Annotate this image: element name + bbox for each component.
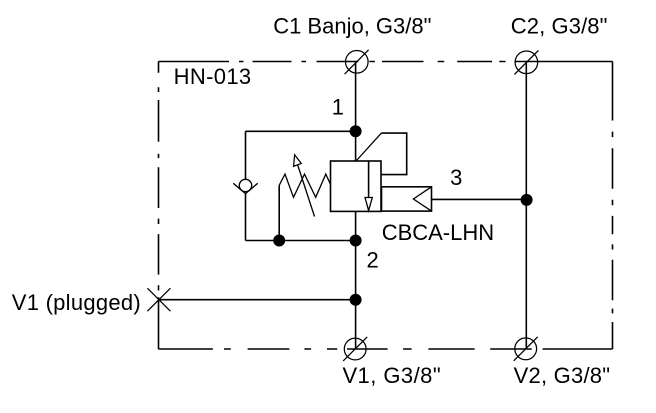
svg-text:C1 Banjo, G3/8": C1 Banjo, G3/8" xyxy=(273,14,431,39)
port V2 slash xyxy=(514,337,538,361)
svg-text:V1 (plugged): V1 (plugged) xyxy=(12,290,141,315)
wire: valve bottom to V1 port xyxy=(355,211,357,349)
manifold boundary bottom (dash-dot) xyxy=(159,348,613,350)
adjustment arrow shaft xyxy=(298,165,315,217)
port C1 slash xyxy=(345,50,369,74)
valve pilot sense line loop xyxy=(381,133,407,175)
wire: spring riser xyxy=(278,185,280,240)
junction dot V1 branch xyxy=(350,294,362,306)
manifold boundary top (dash-dot) xyxy=(159,61,613,63)
valve pilot sense line diagonal xyxy=(357,133,382,160)
wire: left branch down to check valve xyxy=(245,131,247,179)
svg-text:3: 3 xyxy=(450,165,462,190)
pilot piston triangle xyxy=(413,187,431,211)
junction dot spring/check rail xyxy=(273,235,285,247)
check valve seat xyxy=(233,183,257,193)
valve flow path arrow shaft xyxy=(368,161,370,198)
manifold boundary right (dash-dot) xyxy=(612,62,614,350)
svg-text:CBCA-LHN: CBCA-LHN xyxy=(382,220,494,245)
plugged port X symbol xyxy=(147,288,170,311)
svg-text:2: 2 xyxy=(367,248,379,273)
manifold boundary left (dash-dot) xyxy=(158,62,160,350)
junction dot pilot/C2 xyxy=(521,194,533,206)
junction dot main line at rail xyxy=(350,235,362,247)
wire: check valve to bottom rail xyxy=(245,193,247,241)
svg-text:V1, G3/8": V1, G3/8" xyxy=(342,363,441,388)
wire: bottom rail xyxy=(246,240,356,242)
adjustment arrowhead (open) xyxy=(294,155,302,167)
wire: branch node1 to left xyxy=(246,130,356,132)
spring (adjustable) xyxy=(279,174,330,197)
svg-text:V2, G3/8": V2, G3/8" xyxy=(514,363,611,388)
junction node 1 dot xyxy=(350,125,362,137)
pilot piston box (port 3) xyxy=(382,187,432,211)
valve flow path arrowhead (open) xyxy=(365,198,372,211)
wire: V1 plugged branch xyxy=(159,299,356,301)
port V1 slash xyxy=(343,337,367,361)
svg-text:HN-013: HN-013 xyxy=(174,64,252,89)
port V2 circle xyxy=(515,338,537,360)
wire: C2 port down to V2 port xyxy=(525,62,527,349)
svg-text:C2, G3/8": C2, G3/8" xyxy=(511,13,608,38)
port C2 circle xyxy=(515,51,538,74)
check valve circle xyxy=(239,179,251,191)
wire: C1 port down to valve top (node 1 line) xyxy=(355,62,357,161)
wire: pilot port 3 to C2 line xyxy=(432,198,527,200)
port C1 circle xyxy=(346,51,369,74)
svg-text:1: 1 xyxy=(332,95,344,120)
valve CBCA-LHN main envelope xyxy=(331,161,382,211)
port V1 circle xyxy=(344,338,366,360)
port C2 slash xyxy=(514,50,538,74)
